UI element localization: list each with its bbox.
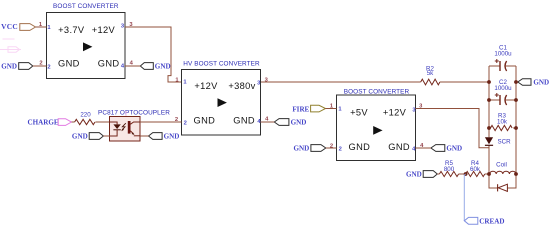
svg-text:+12V: +12V	[92, 25, 116, 35]
converter U4 BOOST CONVERTER	[330, 88, 424, 160]
wire U1 pin4 to GND	[125, 65, 140, 67]
svg-text:2: 2	[339, 146, 342, 152]
svg-text:+5V: +5V	[350, 108, 368, 118]
svg-text:2: 2	[184, 120, 187, 126]
svg-text:5k: 5k	[427, 70, 434, 77]
svg-text:2: 2	[47, 65, 50, 71]
svg-text:GND: GND	[72, 132, 88, 140]
svg-text:GND: GND	[1, 62, 17, 70]
junction R5-R4 CREAD tap	[464, 172, 468, 176]
svg-text:BOOST CONVERTER: BOOST CONVERTER	[53, 3, 119, 10]
junction coil left	[487, 172, 491, 176]
wire U1 pin3 to U2 pin1	[125, 27, 182, 82]
left rail	[488, 66, 490, 137]
svg-text:HV BOOST CONVERTER: HV BOOST CONVERTER	[183, 61, 260, 68]
U4 body	[337, 95, 416, 161]
svg-text:GND: GND	[533, 78, 549, 86]
U3 body	[110, 117, 141, 142]
svg-text:1000u: 1000u	[494, 51, 512, 58]
svg-text:GND: GND	[294, 144, 310, 152]
svg-text:GND: GND	[406, 170, 422, 178]
port VCC	[1, 22, 35, 31]
svg-text:+3.7V: +3.7V	[58, 25, 85, 35]
svg-text:220: 220	[80, 112, 91, 119]
svg-text:CREAD: CREAD	[479, 217, 504, 225]
port GND (U1 pin4)	[140, 62, 170, 70]
wire CHARGE to R6	[72, 121, 75, 123]
svg-text:10k: 10k	[497, 118, 508, 125]
junction R3 left	[487, 126, 491, 130]
svg-text:GND: GND	[291, 118, 307, 126]
ghost pink tick	[125, 111, 127, 117]
U1 body	[47, 13, 126, 79]
svg-text:GND: GND	[194, 115, 216, 125]
wire U4 pin3 to SCR gate	[416, 109, 490, 148]
right rail	[515, 66, 517, 188]
wire FIRE to U4 pin1	[326, 108, 337, 110]
converter U2 HV BOOST CONVERTER	[175, 61, 269, 136]
junction R3 right	[514, 126, 518, 130]
junction C2 right	[514, 98, 518, 102]
wire R5 to R4	[459, 173, 466, 175]
wire R4 to left rail	[485, 173, 489, 175]
wire R6 to opto pin1	[95, 121, 109, 123]
junction coil right	[514, 172, 518, 176]
svg-text:CHARGE: CHARGE	[27, 118, 58, 126]
wire opto pin4 to U2 pin2	[140, 121, 182, 123]
svg-text:GND: GND	[98, 59, 120, 69]
junction R2-left rail	[487, 80, 491, 84]
wire U2 pin3 to rail (R2 net)	[261, 81, 421, 83]
U3 light arrow	[122, 123, 126, 130]
port FIRE	[292, 105, 325, 113]
converter U1 BOOST CONVERTER	[39, 3, 134, 79]
U3 phototransistor	[128, 121, 131, 134]
svg-text:1000u: 1000u	[494, 85, 512, 92]
svg-text:GND: GND	[164, 132, 180, 140]
U1 arrow	[83, 42, 92, 51]
junction rail-GND	[514, 80, 518, 84]
U3 internal anode lead	[110, 122, 118, 124]
svg-text:GND: GND	[58, 59, 80, 69]
SCR Q1	[485, 137, 511, 145]
junction C2 left	[487, 98, 491, 102]
svg-text:GND: GND	[155, 62, 171, 70]
U2 arrow	[218, 98, 227, 107]
port GND (opto pin3)	[149, 132, 180, 140]
optocoupler U3 PC817	[98, 109, 170, 141]
svg-text:+12V: +12V	[383, 108, 407, 118]
port GND (U4 pin2)	[294, 144, 326, 152]
svg-text:FIRE: FIRE	[292, 105, 309, 113]
port GND (opto pin2)	[72, 132, 103, 140]
wire rail to GND	[516, 81, 518, 83]
port GND (U2 pin4)	[274, 118, 306, 126]
diode D1	[498, 184, 508, 191]
wire U2 pin4 to GND	[261, 121, 275, 123]
wire VCC to U1 pin1	[36, 26, 47, 28]
U4 arrow	[373, 126, 382, 135]
ghost pink wire fragment top-left	[0, 39, 21, 52]
U3 LED	[113, 124, 120, 129]
svg-text:GND: GND	[446, 144, 462, 152]
wire CREAD (sense)	[464, 174, 465, 221]
port CHARGE	[27, 118, 71, 126]
svg-text:SCR: SCR	[498, 139, 512, 146]
svg-text:GND: GND	[388, 142, 410, 152]
U2 body	[182, 70, 261, 136]
wire GND to U1 pin2	[33, 65, 47, 67]
port CREAD	[464, 217, 504, 225]
diode D1 loop	[489, 174, 516, 188]
svg-text:Coil: Coil	[496, 161, 507, 168]
wire opto pin3 to GND	[140, 135, 148, 137]
svg-text:VCC: VCC	[1, 22, 18, 31]
port GND (R5)	[406, 170, 437, 178]
svg-text:PC817 OPTOCOUPLER: PC817 OPTOCOUPLER	[98, 109, 170, 116]
svg-text:+12V: +12V	[194, 81, 218, 91]
svg-text:GND: GND	[349, 142, 371, 152]
svg-text:+380v: +380v	[228, 81, 255, 91]
wire U4 pin4 to GND	[416, 147, 431, 149]
port GND (U1 pin2)	[1, 62, 33, 70]
wire R2 to left rail	[440, 81, 489, 83]
wire GND to opto pin2	[103, 135, 109, 137]
svg-text:GND: GND	[233, 115, 255, 125]
port GND (rail)	[518, 78, 549, 86]
U3 internal cathode lead	[110, 130, 117, 136]
svg-text:BOOST CONVERTER: BOOST CONVERTER	[344, 88, 410, 95]
wire GND to U4 pin2	[326, 147, 337, 149]
port GND (U4 pin4)	[431, 144, 462, 152]
